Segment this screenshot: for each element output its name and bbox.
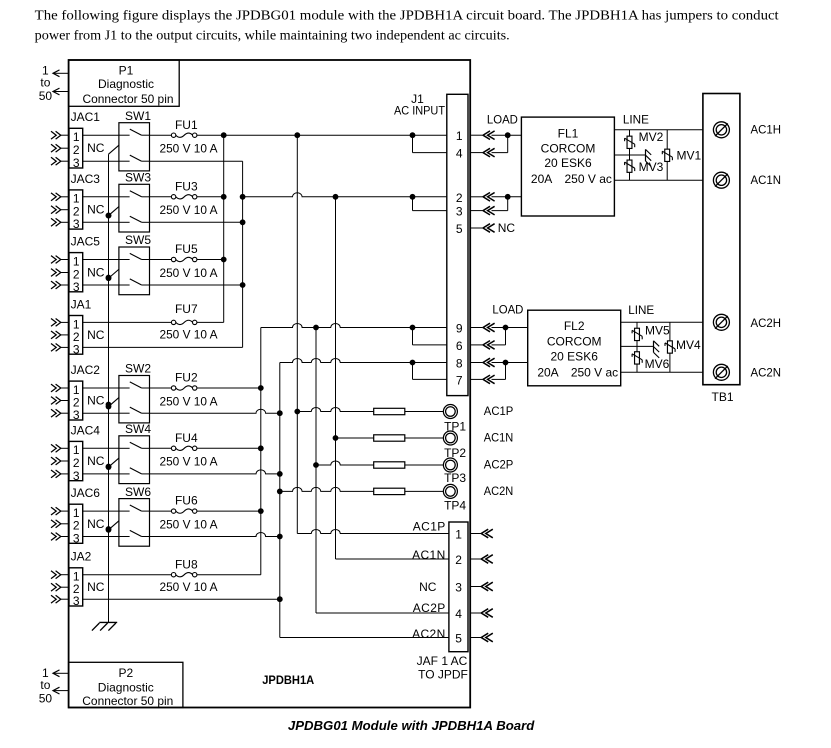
node AC2P test label	[484, 458, 514, 472]
varistor MV5	[632, 328, 642, 340]
svg-text:AC1N: AC1N	[484, 431, 514, 445]
svg-text:7: 7	[456, 373, 463, 387]
wire JAC1-1 to SW1	[83, 134, 119, 136]
fuse FU3	[171, 195, 196, 199]
wire trunk AC1N vertical	[242, 161, 244, 347]
svg-text:FL2: FL2	[564, 319, 585, 333]
FL2 LINE label	[628, 303, 654, 317]
switch SW2 actuator link	[106, 398, 119, 410]
node AC1N test label	[484, 431, 514, 445]
chassis ground FL1 tap	[646, 149, 652, 166]
svg-text:AC1N: AC1N	[751, 173, 782, 187]
wire MV2-MV3 column	[629, 130, 631, 180]
terminal AC1N label	[751, 173, 782, 187]
wire SW2 to FU2	[150, 387, 172, 389]
node AC2P label at JAF1	[413, 601, 446, 615]
wire FL2 center tap	[621, 345, 654, 347]
wire trunk AC1H vertical	[223, 135, 225, 322]
connector JAC5 pin 2 NC label	[87, 266, 105, 280]
svg-text:TP4: TP4	[444, 498, 466, 512]
connector J1 output arrows	[470, 131, 494, 384]
wire AC1N branch vertical	[335, 197, 337, 559]
junction dots row AC1P top	[221, 132, 416, 138]
terminal AC2N	[713, 364, 729, 380]
svg-text:1: 1	[455, 528, 462, 542]
wire J1 pin 4 link	[413, 135, 447, 152]
switch SW1 label	[125, 109, 151, 123]
terminal AC2H label	[751, 316, 782, 330]
svg-text:NC: NC	[87, 266, 105, 280]
svg-text:5: 5	[456, 222, 463, 236]
caption	[288, 718, 535, 733]
svg-text:50: 50	[39, 691, 53, 705]
wire FU4 to trunk	[197, 445, 264, 451]
svg-text:NC: NC	[419, 580, 437, 594]
svg-text:9: 9	[456, 322, 463, 336]
svg-text:1: 1	[73, 192, 80, 206]
connector JAF1 box	[449, 522, 468, 652]
svg-text:SW2: SW2	[125, 362, 151, 376]
wire trunk AC2H vertical	[260, 328, 262, 575]
wire trunk AC2N vertical	[279, 363, 281, 638]
svg-text:250 V 10 A: 250 V 10 A	[160, 266, 218, 280]
wire J1 pin 6 link	[413, 328, 447, 345]
connector JAC5 pin numbers	[73, 254, 80, 294]
svg-text:FU6: FU6	[175, 494, 198, 508]
svg-text:MV5: MV5	[645, 323, 670, 337]
svg-text:FU2: FU2	[175, 371, 198, 385]
ground symbol	[92, 622, 117, 630]
wire TP2 to jack	[405, 437, 444, 439]
paragraph text	[35, 9, 779, 44]
svg-text:AC INPUT: AC INPUT	[394, 104, 446, 118]
wire TP4 feed	[277, 487, 374, 494]
svg-text:3: 3	[73, 217, 80, 231]
wire JAC2-3 to SW2	[83, 412, 119, 414]
svg-text:FU8: FU8	[175, 557, 198, 571]
switch SW2 box	[119, 376, 150, 423]
varistor MV4	[665, 341, 675, 353]
resistor TP4 series	[374, 488, 405, 494]
connector JA1 pin numbers	[73, 317, 80, 356]
connector JAC2 pin 2 NC label	[87, 394, 105, 408]
fuse FU2 label	[175, 371, 198, 385]
terminal block TB1 box	[703, 94, 740, 385]
connector P1 labels	[83, 64, 174, 106]
wire FU5 to trunk	[197, 257, 227, 263]
P1 pin range label	[39, 63, 53, 103]
svg-text:FU7: FU7	[175, 302, 198, 316]
svg-text:NC: NC	[87, 203, 105, 217]
connector P2 labels	[82, 666, 173, 708]
switch SW1 pole contacts	[119, 129, 150, 161]
wire JA1-3 to trunk	[83, 346, 243, 348]
wire ground bus vertical	[108, 154, 110, 622]
module JPDBG01 board outline	[69, 60, 471, 708]
test point TP1 label	[444, 419, 466, 433]
node AC1P test label	[484, 404, 514, 418]
svg-text:TO JPDF: TO JPDF	[418, 667, 468, 681]
fuse FU1	[171, 133, 196, 137]
terminal AC1H	[713, 122, 729, 138]
connector JAC6 box	[69, 504, 83, 543]
fuse FU7 rating label	[160, 328, 218, 342]
connector JAC4 label	[71, 423, 101, 437]
svg-text:3: 3	[73, 531, 80, 545]
switch SW6 actuator link	[106, 521, 119, 533]
svg-text:20A: 20A	[537, 365, 558, 379]
wire TP1 to jack	[405, 411, 444, 413]
svg-text:FU3: FU3	[175, 179, 198, 193]
varistor MV4 label	[676, 338, 701, 352]
wire trunk to J1 pin 8	[280, 359, 447, 366]
svg-text:SW1: SW1	[125, 109, 151, 123]
connector JA2 pin 2 NC label	[87, 580, 105, 594]
connector P2 box	[69, 662, 183, 707]
svg-text:Diagnostic: Diagnostic	[98, 680, 154, 694]
fuse FU8 rating label	[160, 580, 218, 594]
svg-text:NC: NC	[87, 141, 105, 155]
wire SW5 pole2 to trunk	[150, 282, 246, 288]
svg-text:to: to	[40, 76, 50, 90]
switch SW2 label	[125, 362, 151, 376]
wire FU8 to trunk	[197, 574, 261, 576]
wire AC2P branch vertical	[315, 328, 317, 614]
wire SW6 pole2 to trunk	[150, 533, 283, 540]
filter FL1 box	[521, 117, 614, 216]
svg-text:AC1P: AC1P	[484, 404, 514, 418]
wire MV5-MV6 column	[636, 322, 638, 372]
filter FL2 labels	[537, 319, 618, 379]
svg-text:1: 1	[456, 129, 463, 143]
chassis ground FL2 tap	[654, 341, 660, 358]
varistor MV6 label	[645, 357, 670, 371]
svg-text:NC: NC	[87, 517, 105, 531]
svg-text:1: 1	[73, 130, 80, 144]
switch SW3 box	[119, 184, 150, 232]
wire AC2P branch to JAF1 pin 4	[316, 612, 449, 614]
connector JA2 box	[69, 568, 83, 606]
svg-text:2: 2	[73, 143, 80, 157]
P2 pin range label	[39, 666, 53, 706]
varistor MV2	[625, 136, 635, 148]
wire FL1 center tap	[614, 154, 645, 156]
node AC1N label at JAF1	[412, 548, 446, 562]
wire JAC3-1 to SW3	[83, 196, 119, 198]
svg-text:250 V 10 A: 250 V 10 A	[160, 394, 218, 408]
svg-text:P1: P1	[119, 64, 134, 78]
wire SW2 pole2 to trunk	[150, 409, 283, 416]
fuse FU8 label	[175, 557, 198, 571]
svg-text:JAC6: JAC6	[71, 486, 101, 500]
svg-text:AC2P: AC2P	[484, 458, 514, 472]
wire SW1 pole2 to trunk	[150, 160, 243, 162]
connector JAC2 external pin arrows	[51, 384, 69, 417]
wire TP3 feed	[313, 461, 374, 468]
connector JAF1 pin 3 NC label	[419, 580, 437, 594]
connector JAC1 pin 2 NC label	[87, 141, 105, 155]
test point TP3 label	[444, 471, 466, 485]
wire JAC6-1 to SW6	[83, 510, 119, 512]
svg-text:20A: 20A	[531, 172, 552, 186]
svg-text:JAC3: JAC3	[71, 172, 101, 186]
fuse FU6 rating label	[160, 517, 218, 531]
wire JAC4-3 to SW4	[83, 473, 119, 475]
connector JA1 box	[69, 316, 83, 355]
connector JAC1 external pin arrows	[51, 131, 69, 165]
svg-text:JAC1: JAC1	[71, 110, 101, 124]
test point TP1 jack	[443, 405, 457, 419]
connector JAC5 box	[69, 253, 83, 292]
connector JAC6 pin 2 NC label	[87, 517, 105, 531]
wire JAC1-3 to SW1	[83, 160, 119, 162]
connector JAC2 box	[69, 381, 83, 420]
switch SW6 pole contacts	[119, 505, 150, 537]
fuse FU5	[171, 257, 196, 261]
varistor MV3 label	[639, 160, 664, 174]
fuse FU4 label	[175, 431, 198, 445]
fuse FU1 label	[175, 118, 198, 132]
node AC1P label at JAF1	[413, 519, 446, 533]
svg-text:AC2N: AC2N	[412, 627, 446, 641]
fuse FU3 label	[175, 179, 198, 193]
svg-text:JAC5: JAC5	[71, 235, 101, 249]
svg-text:NC: NC	[87, 394, 105, 408]
wire J1 pin 3 link	[413, 197, 447, 211]
wire SW4 pole2 to trunk	[150, 470, 283, 477]
connector JAC5 external pin arrows	[51, 256, 69, 289]
svg-text:SW5: SW5	[125, 233, 151, 247]
resistor TP2 series	[374, 435, 405, 441]
connector J1 pin 5 NC label	[498, 221, 516, 235]
svg-text:4: 4	[456, 147, 463, 161]
filter FL2 box	[528, 310, 621, 386]
wire FU6 to trunk	[197, 508, 264, 514]
svg-text:CORCOM: CORCOM	[547, 335, 602, 349]
terminal AC2H	[713, 314, 729, 330]
switch SW5 box	[119, 247, 150, 295]
connector JAC3 pin 2 NC label	[87, 203, 105, 217]
svg-text:MV1: MV1	[676, 149, 701, 163]
svg-text:3: 3	[455, 581, 462, 595]
svg-text:SW3: SW3	[125, 171, 151, 185]
svg-text:3: 3	[73, 408, 80, 422]
svg-text:TP2: TP2	[444, 446, 466, 460]
wire FU7 to trunk	[197, 321, 224, 323]
svg-text:SW6: SW6	[125, 485, 151, 499]
svg-text:AC1H: AC1H	[751, 122, 782, 136]
connector J1 pin numbers	[456, 129, 463, 387]
connector JAC6 label	[71, 486, 101, 500]
fuse FU7	[171, 320, 196, 324]
terminal AC1H label	[751, 122, 782, 136]
connector JAC5 label	[71, 235, 101, 249]
connector JAF1 output arrows	[470, 529, 493, 642]
svg-text:NC: NC	[87, 328, 105, 342]
fuse FU2	[171, 386, 196, 390]
node AC2N label at JAF1	[412, 627, 446, 641]
svg-text:2: 2	[456, 191, 463, 205]
wire FL2 to TB1 AC2H	[621, 321, 703, 323]
wire SW3 to FU3	[150, 196, 172, 198]
connector JAC6 pin numbers	[73, 506, 80, 545]
svg-text:3: 3	[73, 156, 80, 170]
svg-text:250 V ac: 250 V ac	[565, 172, 612, 186]
wire JAC3-3 to SW3	[83, 221, 119, 223]
varistor MV3	[625, 160, 635, 172]
connector JA1 label	[71, 297, 92, 311]
svg-text:250 V 10 A: 250 V 10 A	[160, 455, 218, 469]
svg-text:250 V 10 A: 250 V 10 A	[160, 580, 218, 594]
switch SW5 pole contacts	[119, 253, 150, 285]
svg-text:4: 4	[455, 607, 462, 621]
switch SW3 label	[125, 171, 151, 185]
connector JAC4 pin 2 NC label	[87, 454, 105, 468]
connector JAC3 box	[69, 190, 83, 229]
terminal AC1N	[713, 172, 729, 188]
switch SW6 box	[119, 499, 150, 547]
wire FU2 to trunk	[197, 385, 264, 391]
wire TP3 to jack	[405, 464, 444, 466]
resistor TP1 series	[374, 408, 405, 414]
wire JA2-3 to trunk	[83, 596, 283, 602]
wire J1 pins 1+4 to FL1	[492, 132, 522, 152]
test point TP2 label	[444, 446, 466, 460]
svg-text:LINE: LINE	[623, 113, 649, 127]
connector JAC1 box	[69, 128, 83, 168]
connector J1 box	[447, 94, 468, 395]
board name JPDBH1A	[262, 673, 314, 687]
wire J1 pins 2+3 to FL1	[492, 194, 522, 211]
connector JAF1 label	[417, 654, 468, 681]
wire FL1 to TB1 AC1H	[614, 129, 703, 131]
connector P1 box	[69, 60, 180, 106]
varistor MV1 label	[676, 149, 701, 163]
terminal block TB1 label	[711, 390, 733, 404]
svg-text:250 V 10 A: 250 V 10 A	[160, 517, 218, 531]
wire AC1P branch vertical	[296, 135, 298, 533]
node AC2N test label	[484, 484, 514, 498]
wire AC1N branch to JAF1 pin 2	[336, 558, 449, 560]
connector JA1 external pin arrows	[51, 319, 69, 352]
svg-text:NC: NC	[87, 454, 105, 468]
svg-text:The following figure displays: The following figure displays the JPDBG0…	[35, 9, 779, 24]
switch SW4 label	[125, 422, 151, 436]
fuse FU4 rating label	[160, 455, 218, 469]
test point TP4 jack	[443, 484, 457, 498]
svg-text:1: 1	[73, 254, 80, 268]
connector JAC4 external pin arrows	[51, 444, 69, 477]
connector JA2 external pin arrows	[51, 571, 69, 603]
test point TP3 jack	[443, 458, 457, 472]
connector JAC6 external pin arrows	[51, 507, 69, 540]
svg-text:250 V 10 A: 250 V 10 A	[160, 142, 218, 156]
wire trunk to J1 pin 2	[240, 193, 447, 200]
wire TP2 feed	[333, 435, 374, 441]
connector JAC3 pin numbers	[73, 192, 80, 232]
test point TP2 jack	[443, 431, 457, 445]
wire TP4 to jack	[405, 490, 444, 492]
svg-text:LOAD: LOAD	[487, 113, 518, 127]
svg-text:TP3: TP3	[444, 471, 466, 485]
switch SW1 actuator link	[109, 145, 119, 154]
wire SW6 to FU6	[150, 510, 172, 512]
svg-text:AC2N: AC2N	[484, 484, 514, 498]
connector JAC1 pin numbers	[73, 130, 80, 170]
test point TP4 label	[444, 498, 466, 512]
svg-text:AC2H: AC2H	[751, 316, 782, 330]
wire SW5 to FU5	[150, 259, 172, 261]
fuse FU5 label	[175, 242, 198, 256]
svg-text:3: 3	[456, 205, 463, 219]
FL1 LOAD label	[487, 113, 518, 127]
switch SW4 box	[119, 436, 150, 484]
wire TP1 feed	[294, 408, 373, 415]
connector JAC2 pin numbers	[73, 383, 80, 422]
fuse FU1 rating label	[160, 142, 218, 156]
connector JAC1 label	[71, 110, 101, 124]
svg-text:20 ESK6: 20 ESK6	[544, 156, 592, 170]
wire FU3 to trunk	[197, 194, 227, 200]
svg-text:JAC2: JAC2	[71, 363, 101, 377]
svg-text:MV2: MV2	[639, 130, 664, 144]
svg-text:20 ESK6: 20 ESK6	[551, 350, 599, 364]
connector JAF1 pin numbers	[455, 528, 462, 646]
svg-text:CORCOM: CORCOM	[541, 141, 596, 155]
wire J1 pin 7 link	[413, 363, 447, 380]
fuse FU6 label	[175, 494, 198, 508]
svg-text:NC: NC	[498, 221, 516, 235]
wire JA2-1 to FU8	[83, 574, 172, 576]
svg-text:250 V 10 A: 250 V 10 A	[160, 328, 218, 342]
svg-text:FU5: FU5	[175, 242, 198, 256]
connector JAC4 pin numbers	[73, 443, 80, 483]
svg-text:SW4: SW4	[125, 422, 151, 436]
wire trunk to J1 pin 9	[261, 324, 447, 331]
filter FL1 labels	[531, 127, 612, 186]
P1 pin arrows	[53, 70, 69, 95]
wire JAC4-1 to SW4	[83, 447, 119, 449]
switch SW5 actuator link	[106, 269, 119, 281]
wire MV1 column	[666, 130, 668, 180]
svg-text:AC2N: AC2N	[751, 365, 782, 379]
wire MV4 column	[669, 322, 671, 372]
svg-text:3: 3	[73, 342, 80, 356]
svg-text:3: 3	[73, 469, 80, 483]
svg-text:250 V 10 A: 250 V 10 A	[160, 203, 218, 217]
svg-text:MV3: MV3	[639, 160, 664, 174]
connector J1 label	[394, 92, 446, 117]
P2 pin arrows	[53, 670, 69, 694]
wire FU1 to J1 pin 1	[197, 134, 447, 136]
fuse FU2 rating label	[160, 394, 218, 408]
svg-text:5: 5	[455, 632, 462, 646]
connector JAC3 external pin arrows	[51, 193, 69, 226]
varistor MV5 label	[645, 323, 670, 337]
fuse FU5 rating label	[160, 266, 218, 280]
FL2 LOAD label	[492, 302, 523, 316]
svg-text:6: 6	[456, 339, 463, 353]
svg-text:JPDBH1A: JPDBH1A	[262, 673, 314, 687]
wire JAC5-1 to SW5	[83, 259, 119, 261]
svg-text:FU1: FU1	[175, 118, 198, 132]
switch SW4 actuator link	[106, 458, 119, 470]
fuse FU3 rating label	[160, 203, 218, 217]
wire SW3 pole2 to trunk	[150, 219, 246, 225]
connector JAC4 box	[69, 441, 83, 480]
switch SW6 label	[125, 485, 151, 499]
fuse FU4	[171, 446, 196, 450]
